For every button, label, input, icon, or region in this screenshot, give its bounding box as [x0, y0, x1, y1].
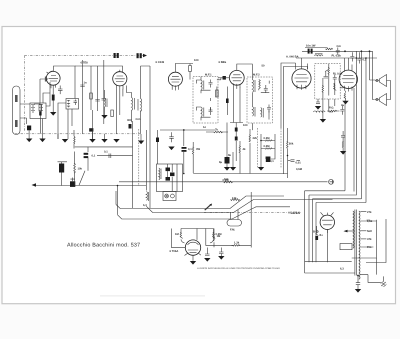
- junction dot rail b: [365, 57, 367, 59]
- tube V4 envelope: [229, 70, 244, 85]
- pilot lamp 1: [165, 194, 169, 198]
- bus C: [118, 207, 291, 219]
- svg-text:PL 0,5k: PL 0,5k: [332, 55, 342, 58]
- wire V1 stage couplings: [34, 79, 75, 113]
- speaker 2 horn: [375, 94, 387, 106]
- tap wire 3: [360, 230, 366, 232]
- speaker 2 dot: [376, 98, 378, 100]
- svg-text:7k: 7k: [215, 129, 218, 132]
- svg-text:Cm: Cm: [337, 45, 342, 48]
- resistor R14: [74, 152, 76, 186]
- nested supply horizontals: [305, 191, 366, 203]
- wire R13 to bus: [75, 146, 133, 148]
- switch arrow: [210, 204, 213, 207]
- tube V2 converter envelope: [113, 72, 127, 86]
- svg-text:0,01: 0,01: [296, 162, 302, 165]
- wire bus drop: [133, 121, 158, 208]
- svg-text:4μ: 4μ: [341, 104, 344, 107]
- tube V3 grids: [170, 76, 180, 82]
- capacitor bank C12: [308, 49, 310, 54]
- wire R17 to transformer: [250, 192, 252, 248]
- junction dot transformer bottom: [357, 275, 359, 277]
- svg-text:B 79: B 79: [313, 231, 319, 234]
- pilot lamp 2: [171, 194, 175, 198]
- T3 wires: [252, 77, 269, 130]
- padder capacitor: [129, 124, 132, 129]
- svg-text:0,5M: 0,5M: [296, 168, 303, 171]
- T3 primary coil: [252, 80, 255, 93]
- HV arrow into transformer: [344, 230, 348, 233]
- tube V4 grid cap blob: [223, 76, 226, 80]
- ground below C1: [26, 139, 32, 143]
- ground output cluster: [340, 151, 346, 155]
- antenna coil T1 box: [30, 103, 46, 119]
- coil L2 winding: [67, 100, 70, 107]
- bus pair horizontal: [97, 155, 133, 157]
- svg-text:22k: 22k: [253, 137, 258, 140]
- cap C20 bars: [84, 153, 89, 155]
- cap C24: [205, 248, 210, 256]
- ground under choke: [320, 119, 326, 123]
- svg-text:1n: 1n: [84, 82, 87, 85]
- tube V5 inner electrodes: [295, 75, 309, 90]
- wire C10: [227, 123, 233, 168]
- tap wire 1: [360, 211, 366, 213]
- wire down to dash line: [40, 113, 72, 134]
- svg-text:100: 100: [243, 124, 248, 127]
- T2 primary coil: [201, 80, 204, 90]
- vertical screen feed wires: [83, 60, 104, 134]
- svg-text:27k: 27k: [367, 211, 372, 214]
- T3 secondary coil: [252, 107, 255, 117]
- resistor on heater bus: [231, 199, 240, 201]
- antenna terminal label: [15, 95, 18, 102]
- svg-text:0,5M: 0,5M: [264, 137, 271, 140]
- IF can T2 dashed box: [193, 77, 218, 124]
- wire V4 plate: [237, 64, 253, 77]
- heater coil vertical: [146, 192, 148, 202]
- ground V6 cathode: [342, 101, 348, 105]
- arrow at end of dash line: [143, 54, 147, 57]
- tube V2 legs: [117, 85, 124, 90]
- screen resistor R5: [189, 66, 192, 72]
- lamp cross: [382, 282, 386, 286]
- svg-text:LA PARTE RACCHIUSA FRA LE LINE: LA PARTE RACCHIUSA FRA LE LINEE TRATTEGG…: [197, 267, 280, 270]
- power transformer T4 core: [355, 210, 357, 276]
- tube V3 legs: [172, 85, 178, 90]
- svg-text:6 TE8: 6 TE8: [81, 62, 89, 65]
- second cap partner: [140, 53, 142, 58]
- cap C9: [235, 137, 238, 141]
- T2 internal wires: [197, 77, 211, 121]
- potentiometer R12: [328, 64, 329, 96]
- capacitor bank C13: [311, 49, 313, 54]
- capacitor C5: [102, 99, 107, 101]
- wire grid cap to tube: [40, 78, 48, 80]
- detector dashed cage left: [257, 128, 259, 168]
- wire grid into V4: [218, 77, 230, 79]
- bus B with bevels: [146, 200, 332, 213]
- wire V1 plate to rail: [54, 66, 76, 85]
- V6 cathode resistor: [344, 91, 345, 101]
- lamp wire: [368, 276, 383, 282]
- top rail wires right section: [296, 48, 377, 59]
- blob on x157: [156, 138, 159, 143]
- coupling cap C18 into V6: [334, 83, 344, 90]
- junction dot: [361, 50, 363, 52]
- svg-text:10k: 10k: [78, 168, 83, 171]
- coupling coil box L2: [66, 99, 79, 110]
- svg-text:B+: B+: [320, 234, 324, 237]
- svg-text:8μ: 8μ: [219, 161, 222, 164]
- svg-text:6 C249: 6 C249: [156, 61, 165, 64]
- earth terminal label: [15, 120, 18, 127]
- trimmer in L2: [74, 100, 78, 106]
- bypass capacitor C2: [58, 86, 63, 95]
- blob cap near T2: [226, 99, 229, 104]
- svg-text:47k: 47k: [367, 238, 372, 241]
- tube V5 top pins: [296, 58, 308, 70]
- antenna coil primary: [31, 105, 35, 114]
- cathode resistor R1: [52, 95, 55, 101]
- housing blob b: [170, 173, 175, 177]
- svg-text:P.O.: P.O.: [329, 107, 334, 110]
- grid stopper cap: [43, 77, 48, 82]
- wire choke: [323, 112, 333, 119]
- grounds under RF section: [57, 134, 59, 139]
- wire plate rail V1-V2: [64, 66, 123, 72]
- rectifier inner: [322, 213, 333, 233]
- svg-text:0,5M: 0,5M: [216, 233, 223, 236]
- detector wires: [261, 134, 275, 167]
- resistor R2 AVC: [39, 105, 42, 112]
- output coupling cluster cap: [341, 131, 345, 137]
- second cap pair: [137, 53, 139, 58]
- pill terminals: [231, 210, 239, 220]
- junction dot: [344, 50, 346, 52]
- lower chassis dash-dot line: [204, 212, 288, 214]
- tube V6 output envelope: [339, 70, 357, 88]
- svg-text:300: 300: [127, 119, 132, 122]
- cap C23 thick: [182, 147, 187, 149]
- T2 primary trimmer: [209, 80, 213, 88]
- wire cathode to ground: [52, 101, 54, 113]
- tap riser right: [352, 220, 377, 258]
- speaker feed wires: [370, 80, 391, 100]
- wires below pot box: [318, 99, 335, 112]
- ground near T3: [230, 167, 236, 171]
- detector cap blob: [266, 157, 271, 163]
- ground under V1: [50, 112, 56, 116]
- wire L2 to AVC: [58, 103, 66, 113]
- capacitor C14: [350, 52, 354, 61]
- tone cap C16: [333, 74, 337, 95]
- resistor R6: [216, 90, 219, 97]
- T4 primary winding: [353, 211, 354, 248]
- junction dot rail a: [356, 57, 358, 59]
- junction dot mains: [117, 185, 119, 187]
- bus A with bevels: [116, 196, 284, 209]
- wires osc section: [105, 66, 141, 134]
- wire coil secondary up to tube V1 grid: [43, 82, 50, 106]
- svg-text:1n: 1n: [203, 126, 206, 129]
- wires IF1 couplings: [217, 78, 227, 116]
- T2 secondary trimmer: [209, 107, 213, 115]
- tube V1 6TE8 envelope: [46, 71, 60, 85]
- switch contact wire: [87, 158, 89, 171]
- wire V3 plate up: [175, 64, 193, 73]
- svg-text:5k: 5k: [228, 154, 231, 157]
- wire right lamp: [360, 219, 386, 283]
- oscillator coil L3: [132, 98, 135, 111]
- ground C24: [204, 258, 210, 262]
- junction dot avc: [287, 155, 289, 157]
- svg-text:0,1: 0,1: [270, 160, 274, 163]
- C19 wires: [58, 162, 68, 186]
- svg-text:50k: 50k: [289, 143, 294, 146]
- bus A left vertical: [116, 186, 118, 215]
- svg-text:15k: 15k: [224, 178, 229, 181]
- svg-text:10n 1W: 10n 1W: [306, 45, 316, 48]
- svg-text:Allocchio Bacchini mod. 537: Allocchio Bacchini mod. 537: [67, 243, 140, 249]
- diode load resistor Ra: [261, 140, 275, 141]
- resistor R8: [239, 141, 240, 174]
- C20 wires: [87, 147, 89, 152]
- tube V6 inner: [342, 75, 355, 91]
- resistor R4: [111, 110, 114, 117]
- svg-text:F.M.: F.M.: [230, 229, 235, 232]
- resistor on phono line: [224, 181, 233, 183]
- wire C23: [183, 152, 185, 173]
- housing blob a: [166, 168, 171, 172]
- svg-text:1,5k: 1,5k: [367, 220, 373, 223]
- ground: [62, 139, 68, 143]
- resistor R7: [249, 129, 250, 174]
- resistor R3: [90, 93, 93, 99]
- capacitor C15: [357, 52, 361, 63]
- output cluster resistor: [342, 137, 343, 151]
- ground transformer: [355, 289, 361, 293]
- horizontal resistor R9: [206, 131, 228, 133]
- ground: [89, 139, 95, 143]
- svg-text:6,3: 6,3: [340, 268, 344, 271]
- svg-text:P.U.: P.U.: [367, 246, 372, 249]
- wire long vertical to bus: [141, 66, 151, 208]
- wire top bus: [160, 130, 215, 146]
- magic eye feed resistor: [180, 229, 184, 244]
- coupling cap C11: [288, 160, 300, 162]
- cap C22: [169, 132, 174, 142]
- chassis boundary dash-dot bottom line: [15, 133, 141, 135]
- ground osc2: [113, 139, 119, 143]
- T4 secondary winding: [359, 211, 360, 279]
- tap wire 2: [360, 220, 370, 221]
- chassis boundary dash-dot top line: [25, 55, 144, 57]
- dial lamp housing box: [157, 164, 183, 192]
- svg-text:3W: 3W: [196, 148, 200, 151]
- resistor R11 horizontal: [326, 48, 333, 50]
- resistor R15: [192, 142, 193, 173]
- AVC feed wires into V5: [281, 63, 308, 128]
- dial coil: [159, 168, 161, 180]
- electrolytic C10: [225, 157, 230, 164]
- ground detector: [258, 167, 264, 171]
- dial dashed vertical: [138, 129, 140, 186]
- volume resistor R10: [287, 136, 288, 154]
- cap C21 horizontal: [109, 154, 111, 159]
- ground below cap: [218, 256, 224, 260]
- T3 secondary coil b: [261, 108, 264, 118]
- magic eye inner: [188, 242, 199, 253]
- antenna capsule: [13, 86, 21, 135]
- svg-text:0,5M: 0,5M: [264, 145, 271, 148]
- svg-text:M.F.2: M.F.2: [253, 74, 260, 77]
- tube V2 grids: [115, 76, 125, 82]
- eye grid line: [172, 229, 186, 248]
- junction dot detector: [260, 140, 262, 142]
- pot wiper arrow: [324, 70, 329, 78]
- capacitor C4: [95, 100, 100, 102]
- B choke L7: [314, 111, 326, 112]
- blob under R18: [315, 236, 318, 240]
- antenna trim capacitor C1: [27, 126, 31, 131]
- RF choke L6: [315, 54, 323, 56]
- dial lamp dashed circle: [381, 281, 386, 286]
- cap C23 b: [182, 150, 187, 152]
- blob C3: [39, 112, 41, 116]
- secondary bottom caps: [356, 276, 360, 290]
- plug top tick: [70, 178, 74, 182]
- phono line: [119, 181, 328, 183]
- ground pot: [315, 106, 321, 110]
- padder coil L5: [105, 98, 108, 107]
- speaker 1 horn: [375, 75, 387, 87]
- wire coil to ground: [42, 119, 44, 139]
- resistor R17 horizontal: [232, 245, 252, 247]
- svg-text:100: 100: [194, 59, 199, 62]
- speaker transformer verticals: [354, 51, 373, 202]
- wire eye cathode bus: [206, 229, 234, 246]
- bottom bus 2: [305, 272, 355, 274]
- svg-text:0,1: 0,1: [104, 151, 108, 154]
- svg-text:50: 50: [262, 65, 265, 68]
- cap C17: [340, 106, 344, 115]
- ground C10: [224, 167, 230, 171]
- svg-text:AC 12V: AC 12V: [291, 212, 301, 215]
- IF can T3 dashed box: [247, 77, 273, 123]
- junction dot: [369, 50, 371, 52]
- T3 cap: [264, 85, 268, 93]
- T3 primary resistor: [259, 80, 261, 91]
- cap below bus: [219, 248, 224, 257]
- cap C20 bar2: [84, 156, 89, 158]
- lamp cross 1: [165, 195, 167, 197]
- antenna coil secondary: [39, 105, 43, 114]
- detector dashed cage right: [280, 128, 282, 168]
- mains plug blob: [70, 181, 75, 187]
- wire C1 to ground: [28, 130, 30, 138]
- tap wire 4: [360, 238, 366, 240]
- rectifier top wires: [321, 212, 334, 262]
- ground osc: [101, 115, 107, 119]
- nested supply verticals: [305, 191, 316, 273]
- volume control dashed box: [315, 64, 340, 100]
- capacitor Cm: [336, 48, 340, 56]
- junction dot bus: [183, 173, 185, 175]
- T3 secondary cap: [267, 105, 271, 113]
- mains arrow: [32, 183, 37, 187]
- ground under coil: [39, 139, 45, 143]
- top rail caps on dash line: [114, 53, 116, 58]
- svg-text:6 B8G: 6 B8G: [219, 61, 227, 64]
- cap to ground: [316, 102, 320, 103]
- cap pair partner: [117, 53, 119, 58]
- T2 secondary coil: [201, 107, 204, 117]
- svg-text:PL 0,5k: PL 0,5k: [333, 73, 343, 76]
- junction dot: [183, 129, 185, 131]
- terminal strip box: [340, 244, 352, 250]
- tube V5 1st AF envelope: [292, 69, 311, 88]
- magic eye tube V7: [185, 240, 200, 255]
- speaker 1 dot: [376, 79, 378, 81]
- electrolytic C19: [59, 164, 64, 173]
- ground magic eye: [190, 261, 196, 265]
- ground under C22: [168, 147, 174, 151]
- resistor PO horizontal: [327, 110, 339, 112]
- magic eye wires: [181, 229, 214, 261]
- resistor R18 bias: [316, 226, 319, 236]
- HV arrow wire: [348, 230, 354, 232]
- cap C8: [235, 128, 238, 132]
- wire V4 cathode chain: [230, 88, 243, 161]
- svg-text:4k: 4k: [243, 148, 246, 151]
- wire stubs to grounds: [58, 110, 93, 139]
- AVC wires: [281, 63, 288, 178]
- svg-text:M.F.1: M.F.1: [205, 74, 212, 77]
- svg-text:1,3k: 1,3k: [234, 242, 240, 245]
- wire antenna to coil: [20, 104, 30, 124]
- svg-text:O.C.: O.C.: [136, 118, 142, 121]
- svg-text:0,1: 0,1: [92, 155, 96, 158]
- oscillator coil L4: [138, 99, 142, 112]
- tube V1 grid: [49, 76, 59, 82]
- phono jack: [329, 179, 334, 184]
- housing blob c: [166, 177, 171, 181]
- faint print smudge: [100, 295, 205, 297]
- resistor R16 vertical: [213, 229, 214, 248]
- svg-text:N22: N22: [367, 230, 372, 233]
- tube V2 top cap: [116, 71, 120, 73]
- diode load resistor Rb: [261, 148, 275, 149]
- ground mid: [138, 141, 144, 145]
- wire R5 down: [189, 64, 191, 80]
- wire from bus A down: [344, 101, 346, 191]
- tube V3 IF amp envelope: [168, 72, 182, 86]
- switch lever: [79, 171, 85, 186]
- bottom bus 1: [305, 261, 352, 263]
- long bus y173: [193, 173, 287, 175]
- lamp box: [163, 192, 176, 201]
- tube V1 cathode legs: [51, 85, 56, 95]
- svg-text:0,1: 0,1: [188, 148, 192, 151]
- tube V1 top cap: [47, 71, 54, 74]
- tap wire 5: [360, 246, 373, 248]
- pot lower resistor: [322, 78, 323, 99]
- rectifier tube V8: [320, 215, 334, 229]
- dropper resistor R13: [74, 130, 75, 149]
- wire V6 plate top: [345, 58, 353, 72]
- switch diagonal S1: [205, 205, 212, 211]
